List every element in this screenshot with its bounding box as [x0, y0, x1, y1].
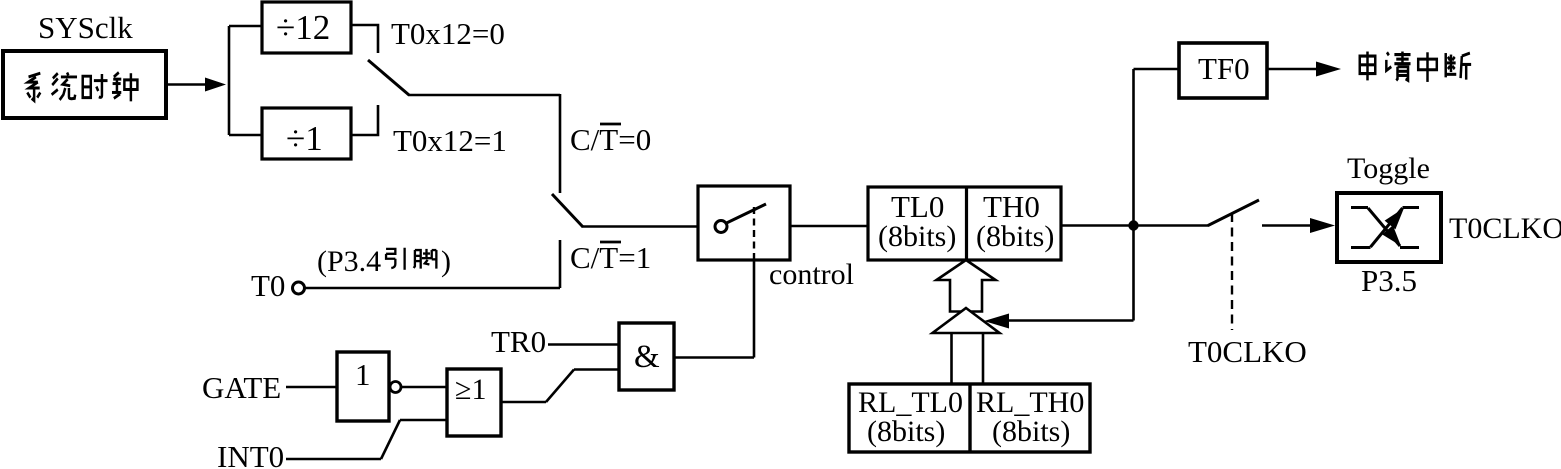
- control switch blade: [727, 204, 767, 223]
- svg-text:TL0: TL0: [891, 189, 944, 224]
- svg-text:≥1: ≥1: [455, 373, 486, 406]
- wire control to TL0: [790, 225, 868, 228]
- junction dot: [1128, 220, 1138, 230]
- wire bubble to OR gate: [401, 386, 447, 389]
- svg-text:TF0: TF0: [1198, 51, 1250, 86]
- reload arrow shaft left: [950, 334, 953, 384]
- reload arrow shaft right: [982, 334, 985, 384]
- svg-text:): ): [441, 245, 451, 278]
- svg-text:control: control: [769, 258, 854, 291]
- svg-text:÷12: ÷12: [276, 8, 330, 47]
- svg-text:1: 1: [355, 357, 371, 392]
- wire splitter vertical: [228, 26, 231, 135]
- wire AND out: [674, 356, 754, 359]
- text 申请中断 (request interrupt, hand-drawn glyphs): [1360, 52, 1376, 81]
- svg-text:(8bits): (8bits): [867, 415, 945, 448]
- block 系统时钟 (system clock) box: [3, 51, 166, 118]
- gate AND box: [619, 323, 674, 390]
- arrowhead feedback into reload arrow: [984, 314, 1009, 329]
- svg-text:TR0: TR0: [491, 324, 546, 359]
- svg-text:GATE: GATE: [202, 370, 281, 405]
- svg-text:T0CLKO: T0CLKO: [1188, 334, 1307, 369]
- wire INT0 diagonal: [381, 420, 400, 459]
- svg-text:C/T=0: C/T=0: [570, 122, 651, 157]
- divider TL0/TH0: [965, 187, 968, 260]
- svg-text:(8bits): (8bits): [878, 220, 956, 253]
- svg-text:P3.5: P3.5: [1361, 263, 1417, 298]
- inverter bubble: [390, 382, 401, 393]
- wire TR0 to AND gate: [548, 343, 619, 346]
- wire div12 to switch contact: [351, 25, 378, 53]
- switch control box: [698, 186, 790, 260]
- wire S1 to vertical: [408, 94, 560, 97]
- block Toggle box: [1337, 193, 1441, 262]
- wire feedback horizontal: [1008, 319, 1134, 322]
- wire TL0 out to switch S3: [1061, 224, 1209, 227]
- wire INT0: [286, 458, 381, 461]
- wire OR out diagonal: [546, 370, 574, 403]
- block TL0/TH0 counter box: [868, 187, 1061, 260]
- gate OR box: [447, 369, 501, 436]
- svg-text:&: &: [634, 339, 660, 375]
- wire INT0 to OR gate: [400, 419, 447, 422]
- wire T0 horizontal: [305, 287, 560, 290]
- wire vertical junction to TF0 and feedback: [1132, 69, 1135, 321]
- svg-text:T0CLKO: T0CLKO: [1449, 212, 1561, 245]
- wire to div12: [229, 25, 262, 28]
- block arrow reload upper: [937, 260, 996, 312]
- svg-text:(8bits): (8bits): [976, 220, 1054, 253]
- svg-text:TH0: TH0: [983, 189, 1040, 224]
- gate inverter box: [337, 352, 389, 421]
- svg-text:C/T=1: C/T=1: [570, 240, 651, 275]
- svg-text:T0x12=1: T0x12=1: [393, 123, 507, 158]
- svg-text:T0: T0: [251, 268, 285, 303]
- block RL_TL0/RL_TH0 box: [849, 384, 1090, 452]
- text 系统时钟 (hand-drawn glyphs): [27, 73, 40, 100]
- svg-text:(8bits): (8bits): [992, 415, 1070, 448]
- svg-text:INT0: INT0: [217, 439, 284, 469]
- wire div1 to switch contact: [351, 105, 378, 135]
- dashed link S3 to T0CLKO label: [1231, 213, 1233, 330]
- switch S3 blade: [1208, 200, 1259, 226]
- svg-text:÷1: ÷1: [286, 119, 323, 158]
- block arrow reload lower head: [933, 308, 1000, 333]
- terminal T0 circle: [293, 282, 305, 294]
- toggle symbol arrowhead rising: [1385, 208, 1404, 229]
- wire TF0 to interrupt: [1267, 68, 1318, 71]
- wire S3 to toggle: [1262, 224, 1315, 227]
- wire to TF0: [1134, 68, 1180, 71]
- toggle waveform symbol: [1351, 208, 1419, 248]
- switch S2 blade: [552, 194, 583, 227]
- wire S2 to control box: [582, 225, 698, 228]
- wire to div1: [229, 134, 262, 137]
- svg-text:T0x12=0: T0x12=0: [391, 16, 505, 51]
- block divide-by-1 box: [262, 108, 351, 159]
- wire vertical down to S2: [559, 94, 562, 193]
- arrowhead into splitter: [205, 78, 226, 92]
- arrowhead into toggle: [1310, 218, 1335, 233]
- wire OR out: [501, 401, 546, 404]
- divider RL boxes: [968, 384, 971, 452]
- wire T0 stub up to S2 open contact: [559, 240, 562, 288]
- wire AND up to control: [753, 259, 756, 358]
- svg-text:Toggle: Toggle: [1347, 152, 1430, 185]
- svg-text:(P3.4: (P3.4: [317, 245, 381, 278]
- switch S1 blade: [368, 60, 409, 95]
- block divide-by-12 box: [262, 2, 351, 53]
- control switch pivot circle: [715, 221, 727, 233]
- toggle symbol arrowhead falling: [1382, 225, 1401, 246]
- wire OR to AND gate: [574, 368, 619, 371]
- arrowhead interrupt: [1316, 62, 1341, 77]
- block TF0 box: [1179, 43, 1267, 98]
- wire GATE to inverter: [286, 386, 337, 389]
- wire clock out: [166, 83, 210, 86]
- control dashed actuator line: [753, 207, 755, 259]
- svg-text:SYSclk: SYSclk: [38, 10, 133, 45]
